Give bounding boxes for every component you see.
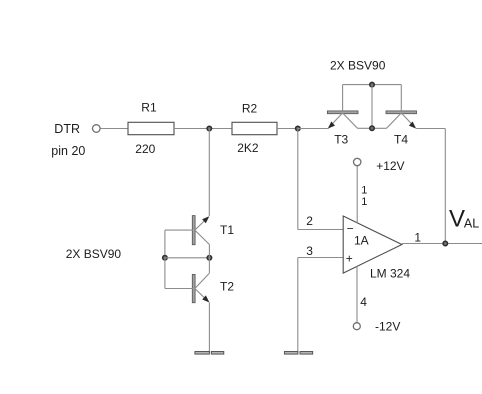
ground (op-amp pin 3) — [284, 352, 312, 355]
wire bases to collectors (center vertical) — [371, 85, 373, 129]
wire pin 3 down to ground — [297, 258, 299, 353]
svg-text:+12V: +12V — [376, 159, 404, 173]
wire R1 to R2 — [174, 128, 232, 130]
wire node B to T3 emitter — [298, 128, 329, 130]
wire tie node to T2 collector — [208, 258, 210, 273]
svg-text:R1: R1 — [141, 101, 157, 115]
wire T3 base up — [342, 85, 344, 112]
node -12V terminal — [353, 323, 360, 330]
svg-text:+: + — [346, 251, 353, 265]
svg-text:LM 324: LM 324 — [370, 267, 410, 281]
transistor T2 — [192, 273, 209, 302]
svg-text:2X BSV90: 2X BSV90 — [330, 59, 386, 73]
wire op-amp pin 3 — [298, 257, 343, 259]
transistor T4 — [386, 111, 417, 129]
node DTR input terminal — [93, 125, 101, 133]
wire T2 base left — [165, 288, 193, 290]
ground (T2 emitter) — [195, 352, 224, 355]
wire +12V supply to op-amp — [356, 166, 358, 223]
svg-text:2K2: 2K2 — [237, 141, 259, 155]
svg-text:220: 220 — [135, 142, 155, 156]
wire bases tie horizontal — [165, 257, 210, 259]
svg-text:2: 2 — [306, 214, 313, 228]
wire op-amp pin 2 — [298, 229, 343, 231]
node collectors junction — [370, 126, 375, 131]
svg-text:T4: T4 — [394, 132, 408, 146]
resistor R1 — [128, 122, 174, 134]
wire DTR to R1 — [100, 128, 128, 130]
node +12V terminal — [354, 158, 361, 165]
svg-text:1: 1 — [361, 185, 367, 197]
svg-text:T1: T1 — [220, 223, 234, 237]
wire R2 to node B — [277, 128, 298, 130]
svg-text:AL: AL — [464, 217, 479, 231]
wire op-amp output — [402, 243, 482, 245]
node bases tie left — [163, 256, 168, 261]
resistor R2 — [232, 122, 277, 134]
node junction A (R1/R2/T1) — [207, 126, 212, 131]
node top bases junction — [370, 82, 375, 87]
svg-text:1: 1 — [361, 196, 367, 208]
wire T1 base left — [165, 229, 193, 231]
svg-text:1A: 1A — [354, 234, 369, 248]
wire base tie left vertical (T2) — [164, 258, 166, 289]
node B junction (R2/T3/op-amp) — [296, 126, 301, 131]
wire T2 emitter down to ground — [208, 303, 210, 353]
svg-text:pin 20: pin 20 — [51, 144, 85, 158]
op-amp U1A LM324 — [343, 216, 402, 273]
wire base tie left vertical (T1) — [164, 230, 166, 258]
svg-text:R2: R2 — [242, 101, 258, 115]
svg-text:1: 1 — [414, 230, 421, 244]
wire T4 emitter to right corner — [416, 128, 445, 130]
wire -12V supply to op-amp — [356, 266, 358, 322]
svg-text:2X BSV90: 2X BSV90 — [66, 247, 122, 261]
svg-text:T2: T2 — [220, 280, 234, 294]
svg-text:−: − — [347, 222, 354, 236]
wire T4 base up — [400, 85, 402, 112]
svg-text:4: 4 — [360, 295, 367, 309]
svg-text:T3: T3 — [334, 132, 348, 146]
svg-text:3: 3 — [306, 244, 313, 258]
wire T3/T4 bases tie (top) — [343, 84, 402, 86]
wire node B down to op-amp pin2 — [297, 129, 299, 230]
node output junction — [443, 241, 448, 246]
wire T3 collector to T4 collector — [358, 127, 387, 129]
transistor T1 — [192, 216, 209, 245]
svg-text:-12V: -12V — [375, 320, 400, 334]
svg-text:V: V — [449, 206, 465, 233]
transistor T3 — [327, 111, 358, 129]
wire node A down to T1 — [208, 129, 210, 217]
svg-text:DTR: DTR — [54, 122, 80, 136]
node center tie (T1 emitter / T2 collector) — [207, 256, 212, 261]
wire right vertical down to output — [444, 129, 446, 244]
wire T1 emitter to tie node — [208, 245, 210, 258]
